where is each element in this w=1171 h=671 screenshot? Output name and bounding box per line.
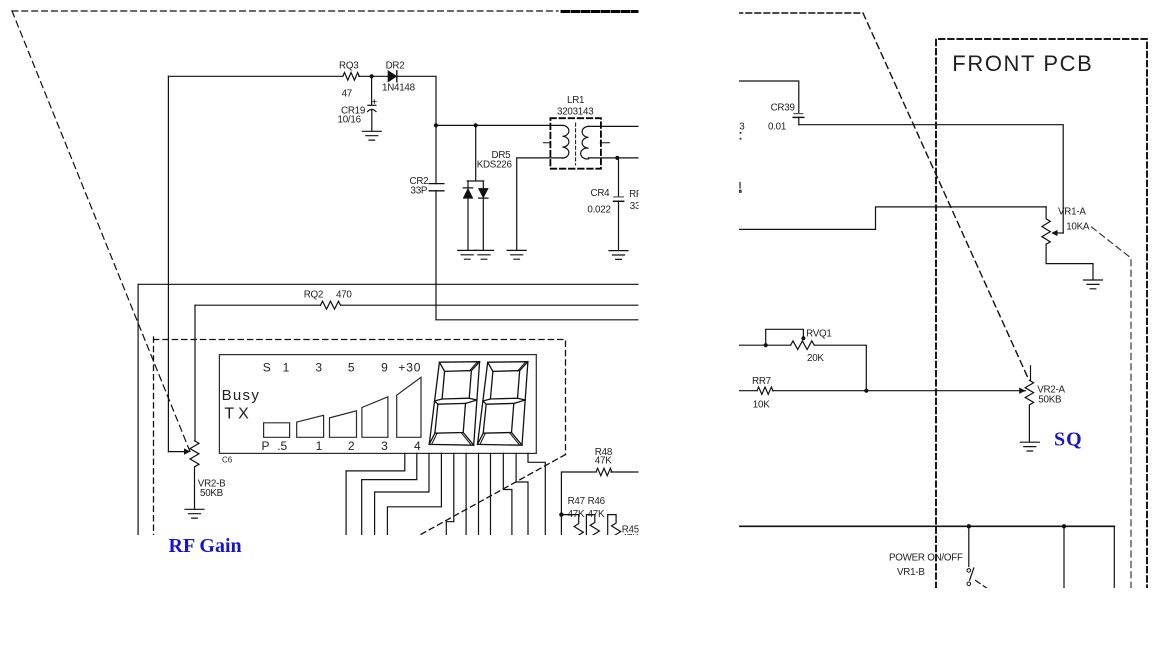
node junction dot at DR5 top — [474, 123, 478, 127]
svg-text:.5: .5 — [277, 439, 287, 453]
signal bar 5 — [397, 377, 421, 437]
svg-text:3: 3 — [739, 122, 745, 133]
svg-text:47K: 47K — [588, 509, 605, 520]
svg-text:47: 47 — [342, 89, 352, 100]
wire: bus line 2 left segment — [195, 304, 321, 306]
svg-text:10/16: 10/16 — [338, 115, 362, 126]
wire: bus line 2 right segment — [341, 304, 640, 306]
potentiometer VR2-B — [190, 441, 199, 509]
display scale labels bottom row — [261, 439, 420, 453]
capacitor CR4 plates — [614, 196, 624, 198]
wire: CR39 top — [739, 81, 799, 113]
wire: jog wire to VR1-A top — [739, 207, 1046, 230]
resistor RQ3 — [343, 73, 359, 81]
wire: bottom power rail — [738, 525, 1114, 527]
svg-text:47K: 47K — [622, 533, 639, 544]
transformer LR1 core dashed center — [575, 123, 577, 165]
capacitor CR19 lead — [371, 76, 373, 105]
potentiometer VR1-A wiper arrow — [1058, 232, 1064, 234]
svg-text:Busy: Busy — [222, 387, 261, 404]
svg-text:CR4: CR4 — [591, 188, 611, 199]
svg-text:3: 3 — [315, 360, 322, 374]
diode pair DR5 — [463, 125, 488, 250]
svg-text:LR1: LR1 — [567, 95, 584, 106]
svg-text:S: S — [263, 360, 271, 374]
dashed frame top border — [12, 10, 558, 12]
display scale labels top row — [263, 360, 421, 374]
wire: right drop 2 — [1113, 526, 1115, 588]
wire: bus line 1 — [138, 283, 639, 285]
ground below VR2-A — [1020, 442, 1039, 451]
dashed region diagonal to bottom — [418, 455, 566, 537]
node junction dot right drop — [1062, 524, 1066, 528]
svg-text:TX: TX — [224, 406, 252, 423]
wire fan from display pin 1 — [346, 453, 405, 536]
node junction dot RVQ1 left — [764, 343, 768, 347]
svg-text:RF1: RF1 — [629, 189, 647, 200]
dashed region box around display — [154, 337, 566, 535]
signal bar 3 — [330, 411, 357, 438]
svg-text:10KA: 10KA — [1066, 222, 1090, 233]
dashed pointer from 10KA to bottom — [1092, 227, 1132, 588]
capacitor CR19 bottom lead — [371, 111, 373, 132]
wire: bus line 1 left drop — [137, 284, 139, 535]
wire fan from display pin 5 — [446, 453, 454, 536]
svg-text:3: 3 — [381, 439, 388, 453]
ground below LR1 primary — [507, 250, 526, 259]
wire: horizontal to RQ3 — [168, 75, 342, 77]
svg-text:RVQ1: RVQ1 — [806, 329, 832, 340]
svg-text:R46: R46 — [588, 496, 606, 507]
svg-text:RF Gain: RF Gain — [169, 535, 242, 557]
wire: RVQ1 left — [739, 344, 791, 346]
svg-text:R47: R47 — [568, 496, 585, 507]
display module box — [219, 355, 536, 454]
capacitor CR2 plates — [429, 184, 444, 191]
node junction dot RQ3/DR2/CR19 — [370, 74, 374, 78]
wire: node to LR1 primary top — [436, 124, 563, 126]
diode DR2 — [388, 71, 397, 82]
wire: long vertical from RQ3 level to VR2-B arrow — [167, 76, 169, 451]
dashed frame diagonal — [12, 11, 190, 452]
node junction dot CR4 — [615, 156, 619, 160]
svg-text:P: P — [261, 439, 269, 453]
wire: R48 left corner — [561, 472, 596, 535]
resistor RQ2 — [321, 301, 341, 309]
svg-text:20K: 20K — [807, 353, 824, 364]
node junction dot switch — [967, 524, 971, 528]
resistor RVQ1 — [791, 341, 815, 350]
seven segment digit 1 — [429, 362, 479, 446]
switch VR1-B blade — [970, 568, 974, 580]
wire fan from display pin 3 — [375, 453, 429, 536]
dashed frame diagonal right part — [863, 13, 1028, 378]
wire fan from display pin 2 — [362, 453, 417, 536]
capacitor CR19 plates — [368, 104, 376, 106]
RVQ1 wiper loop — [766, 329, 804, 345]
node junction dot R47 bus — [559, 512, 563, 516]
potentiometer VR2-A wiper arrow — [1019, 388, 1025, 394]
capacitor CR19 plus mark — [372, 100, 376, 104]
svg-text:5: 5 — [348, 360, 355, 374]
wire: RQ3 to DR2 — [359, 75, 388, 77]
node junction dot at CR2 top — [434, 123, 438, 127]
wire: LR1 secondary top output — [589, 125, 640, 127]
wire: VR2-B top lead — [194, 305, 196, 441]
svg-text:3203143: 3203143 — [557, 107, 594, 118]
svg-text:33: 33 — [630, 201, 641, 212]
wire fan from display pin 4 — [387, 453, 441, 536]
wire: RR7 to VR2-A arrow — [773, 390, 1026, 392]
svg-text:SQ: SQ — [1054, 429, 1083, 451]
svg-text:C6: C6 — [222, 455, 233, 464]
svg-text:POWER ON/OFF: POWER ON/OFF — [889, 553, 963, 564]
svg-text:470: 470 — [336, 290, 352, 301]
resistor R47 — [561, 515, 583, 544]
wire fan from display pin 7 — [478, 453, 480, 536]
switch VR1-B linkage dashes — [976, 581, 989, 590]
signal bar 1 — [264, 423, 290, 438]
wire: CR39 to VR1-A wiper vertical — [799, 125, 1063, 233]
switch VR1-B contact bottom — [967, 582, 971, 586]
potentiometer VR1-A — [1042, 207, 1093, 280]
svg-text:VR1-A: VR1-A — [1058, 207, 1086, 218]
transformer LR1 side ticks — [544, 142, 610, 144]
resistor RR7 — [757, 387, 773, 394]
ground below CR4 — [609, 251, 628, 260]
svg-text:VR1-B: VR1-B — [897, 567, 925, 578]
svg-text:50KB: 50KB — [200, 488, 224, 499]
FRONT PCB dashed box — [936, 39, 1147, 588]
svg-text:+30: +30 — [398, 360, 421, 374]
svg-text:RR7: RR7 — [752, 376, 771, 387]
svg-text:47K: 47K — [595, 456, 612, 467]
dashed frame top border bold segment — [562, 10, 641, 13]
signal bar 4 — [362, 397, 388, 438]
potentiometer VR2-A top lead — [1030, 366, 1032, 381]
wire: R48 right — [611, 471, 639, 473]
svg-text:1: 1 — [283, 360, 290, 374]
svg-text:RQ2: RQ2 — [304, 290, 323, 301]
wire: LR1 secondary bottom output — [588, 157, 639, 159]
capacitor CR4 bottom lead — [618, 201, 620, 250]
potentiometer VR2-A — [1025, 380, 1033, 442]
svg-text:0.022: 0.022 — [587, 204, 610, 215]
wire: DR2 to corner, down — [397, 76, 436, 183]
wire: right drop 1 — [1063, 526, 1065, 588]
svg-text:1: 1 — [316, 439, 323, 453]
svg-text:9: 9 — [381, 360, 388, 374]
capacitor CR39 bottom lead — [798, 117, 800, 124]
svg-text:1N4148: 1N4148 — [382, 83, 416, 94]
wire fan from display pin 6 — [465, 453, 467, 536]
wire fan from display pin 11 — [528, 453, 545, 536]
svg-text:50KB: 50KB — [1038, 395, 1062, 406]
ground below VR2-B — [185, 509, 204, 518]
svg-text:4: 4 — [414, 439, 421, 453]
label colon fragment — [740, 132, 742, 140]
svg-text:2: 2 — [348, 439, 355, 453]
resistor R48 — [596, 468, 612, 475]
svg-text:0.01: 0.01 — [768, 122, 786, 133]
svg-text:RQ3: RQ3 — [339, 61, 359, 72]
dashed frame top border right part — [737, 12, 863, 14]
resistor R46 — [586, 515, 599, 543]
wire: switch top lead — [968, 526, 970, 566]
wire fan from display pin 8 — [490, 453, 492, 536]
potentiometer VR2-B wiper arrow — [168, 451, 184, 453]
svg-text:47K: 47K — [568, 509, 585, 520]
ground below DR5 right — [475, 250, 494, 259]
svg-text:CR39: CR39 — [771, 103, 795, 114]
capacitor CR4 lead — [618, 158, 620, 197]
seven segment digit 2 — [478, 362, 528, 446]
transformer LR1 dashed box — [550, 118, 601, 169]
transformer LR1 primary coil — [562, 125, 568, 158]
transformer LR1 secondary coil — [581, 126, 589, 159]
svg-text:10K: 10K — [753, 400, 770, 411]
wire: RVQ1 right with corner down — [814, 345, 866, 391]
node junction dot RR7/RVQ1 — [864, 389, 868, 393]
svg-text:FRONT PCB: FRONT PCB — [952, 51, 1093, 76]
svg-text:DR2: DR2 — [386, 61, 405, 72]
label exclamation fragment — [739, 183, 741, 193]
svg-text:KDS226: KDS226 — [477, 160, 513, 171]
node junction dot RVQ1 wiper — [801, 336, 805, 340]
svg-text:33P: 33P — [411, 185, 428, 196]
ground below VR1-A — [1084, 280, 1103, 289]
wire: CR2 down to bus — [435, 191, 437, 320]
resistor R45 — [608, 515, 621, 543]
signal bar 2 — [297, 415, 324, 437]
ground below CR19 — [362, 131, 381, 140]
capacitor CR39 plates — [794, 113, 803, 115]
wire: RR7 left — [739, 390, 757, 392]
wire fan from display pin 10 — [516, 453, 528, 536]
ground below DR5 left — [458, 250, 477, 259]
wire: bus line 3 — [436, 319, 639, 321]
wire: LR1 primary bottom to ground — [517, 158, 563, 250]
wire fan from display pin 9 — [503, 453, 512, 536]
switch VR1-B contact top — [967, 569, 971, 573]
